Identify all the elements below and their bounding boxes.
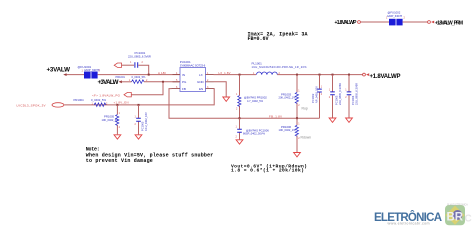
svg-text:0_0402_5%: 0_0402_5% — [91, 98, 106, 102]
wire GND pin to ground — [214, 82, 227, 97]
wire fuse FU1002 to +1.8VALW_PRM — [403, 21, 428, 23]
svg-text:PR1001: PR1001 — [116, 75, 126, 79]
svg-text:1: 1 — [236, 93, 238, 96]
fuse FU1001 — [78, 65, 101, 79]
svg-text:PR1004: PR1004 — [74, 98, 85, 102]
capacitor PC1006 — [236, 118, 270, 139]
resistor Rdown PR1006 — [279, 118, 312, 152]
svg-text:GND: GND — [197, 80, 205, 84]
svg-text:A_1.8V: A_1.8V — [158, 71, 166, 75]
resistor PR1001 — [116, 75, 149, 83]
wire to fuse FU1002 — [361, 21, 390, 23]
junction EN divider — [116, 104, 118, 106]
resistor PR1004 — [74, 98, 109, 106]
node +1.8VALWP (top right) — [335, 20, 361, 26]
svg-text:2: 2 — [119, 126, 121, 129]
svg-text:C: C — [465, 214, 472, 225]
junction dots on output rail — [239, 74, 241, 76]
power flag +3VALW — [47, 67, 71, 76]
svg-text:1: 1 — [236, 126, 238, 129]
wire FB pin loop to divider — [169, 89, 320, 119]
svg-text:10K_0402_1%: 10K_0402_1% — [279, 128, 297, 132]
svg-text:1: 1 — [329, 89, 331, 92]
junction on rail at cap branch — [148, 74, 150, 76]
svg-text:+3VALW: +3VALW — [98, 79, 119, 86]
wire LX to inductor PL1001 — [214, 74, 257, 76]
IC pin stubs — [172, 75, 181, 89]
svg-text:0_0402_5%: 0_0402_5% — [132, 75, 147, 79]
ground (PC1005) — [135, 135, 142, 139]
svg-text:<F> 1.8VALW_PG: <F> 1.8VALW_PG — [92, 94, 121, 98]
svg-text:2: 2 — [345, 96, 347, 99]
op-amp U1 : regulator IC PU1001 — [172, 60, 214, 91]
junction divider on FB line — [296, 117, 298, 119]
svg-text:2: 2 — [99, 69, 101, 72]
ground (PR1005) — [114, 135, 121, 139]
ground (PC1004) — [346, 118, 353, 122]
wire capacitor PC1001 to rail — [138, 65, 148, 74]
svg-text:to prevent Vin damage: to prevent Vin damage — [86, 158, 153, 164]
svg-text:22U_0805_6.3V6R: 22U_0805_6.3V6R — [338, 83, 342, 105]
svg-text:1.8 = 0.6*(1 + 20k/10k): 1.8 = 0.6*(1 + 20k/10k) — [231, 168, 304, 174]
svg-text:22U_0805_6.3V6R: 22U_0805_6.3V6R — [128, 54, 151, 58]
ground (IC GND) — [223, 97, 230, 101]
svg-text:@FU1002: @FU1002 — [388, 10, 401, 14]
svg-text:FB: FB — [182, 87, 186, 91]
svg-text:FB=0.6V: FB=0.6V — [248, 36, 269, 42]
power flag +3VALW (PG pullup) — [98, 79, 122, 86]
svg-text:2: 2 — [142, 61, 144, 64]
resistor PR1005 — [102, 105, 121, 134]
node +1.8VALWP output flag — [363, 73, 401, 80]
svg-text:PG: PG — [182, 80, 187, 84]
svg-text:1UH_MHCD25201R0-PR8-NE_1R_20%: 1UH_MHCD25201R0-PR8-NE_1R_20% — [252, 65, 308, 69]
fuse FU1002 — [386, 10, 406, 25]
svg-text:Rup: Rup — [302, 107, 308, 111]
port arrow (input cap branch) — [114, 63, 121, 67]
wire PG node down to port 1.8VALW_PG — [132, 82, 164, 95]
svg-text:2: 2 — [135, 123, 137, 126]
resistor Rup PR1003 — [279, 75, 308, 119]
svg-text:+3VALW: +3VALW — [47, 67, 71, 74]
wire fuse to IC IN pin (+3VALW rail) — [98, 74, 180, 76]
inductor PL1001 — [252, 61, 308, 74]
capacitor PC1001 — [128, 51, 151, 67]
svg-text:1: 1 — [119, 112, 121, 115]
svg-text:FB_1.8V: FB_1.8V — [269, 114, 282, 118]
svg-text:1: 1 — [298, 123, 300, 126]
capacitor PC1004 — [345, 75, 358, 118]
svg-text:22U_0805_6.3V6R: 22U_0805_6.3V6R — [354, 83, 358, 105]
resistor R PR1002 (bypass) — [236, 75, 267, 119]
junction PG node — [162, 81, 164, 83]
svg-text:+1.8V_EN: +1.8V_EN — [114, 100, 129, 104]
port 1.8VALW_PG — [92, 93, 131, 98]
svg-text:LVCDL3_SPOK_3V: LVCDL3_SPOK_3V — [17, 104, 46, 108]
svg-text:PC1005: PC1005 — [141, 121, 145, 131]
ground (Rdown) — [294, 153, 301, 157]
capacitor PC1003 — [329, 75, 342, 118]
wire +3VALW to fuse FU1001 — [67, 74, 85, 76]
svg-text:2: 2 — [298, 104, 300, 107]
svg-text:EN: EN — [199, 87, 203, 91]
ground (PC1003) — [329, 118, 336, 122]
svg-text:86SP_0402_50V%: 86SP_0402_50V% — [243, 132, 266, 136]
svg-text:www.eletronicabr.com: www.eletronicabr.com — [388, 222, 430, 226]
svg-text:1: 1 — [130, 61, 132, 64]
svg-text:1: 1 — [345, 89, 347, 92]
svg-text:1: 1 — [298, 90, 300, 93]
svg-text:1: 1 — [321, 86, 323, 89]
svg-text:+1.8VALWP: +1.8VALWP — [335, 20, 358, 26]
wire inductor to +1.8VALWP output — [277, 74, 362, 76]
svg-text:2: 2 — [236, 108, 238, 111]
svg-text:SUA ELETRONICA: SUA ELETRONICA — [447, 204, 468, 207]
svg-text:2: 2 — [236, 136, 238, 139]
wire port to capacitor PC1001 — [122, 64, 135, 66]
logo EletronicaBR — [374, 204, 472, 226]
node +1.8VALW_PRM flag — [428, 20, 463, 26]
svg-text:2: 2 — [404, 17, 406, 20]
port LVCDL3_SPOK_3V — [17, 103, 65, 108]
svg-text:4A0P_63078: 4A0P_63078 — [387, 14, 403, 18]
svg-text:20K_0402_1%: 20K_0402_1% — [279, 96, 297, 100]
svg-text:PL1001: PL1001 — [252, 61, 263, 65]
capacitor PC1002 (feed-forward) — [311, 75, 323, 119]
svg-text:PU1001: PU1001 — [180, 60, 191, 64]
capacitor PC1005 — [135, 105, 149, 134]
svg-text:NP_0402_50V: NP_0402_50V — [314, 86, 318, 103]
svg-text:LX: LX — [199, 73, 203, 77]
svg-text:BR: BR — [447, 212, 464, 224]
svg-text:4.7_0402_5%: 4.7_0402_5% — [247, 99, 264, 103]
wire EN pin loop — [213, 88, 216, 90]
wire +3VALW to resistor PR1001 — [122, 81, 132, 83]
svg-text:+1.8VALWP: +1.8VALWP — [370, 74, 401, 80]
ground (PC1006) — [236, 140, 243, 144]
svg-text:Rdown: Rdown — [301, 136, 312, 140]
wire resistor PR1001 to IC PG pin — [144, 81, 180, 83]
svg-text:0.1U_0402_16V: 0.1U_0402_16V — [144, 112, 148, 131]
svg-text:+1.8VALW_PRM: +1.8VALW_PRM — [435, 20, 463, 26]
svg-text:LX_1.8V: LX_1.8V — [219, 71, 231, 75]
svg-text:2: 2 — [329, 96, 331, 99]
junction bypass on FB line — [239, 117, 241, 119]
svg-text:2: 2 — [321, 93, 323, 96]
svg-text:IN: IN — [182, 73, 185, 77]
